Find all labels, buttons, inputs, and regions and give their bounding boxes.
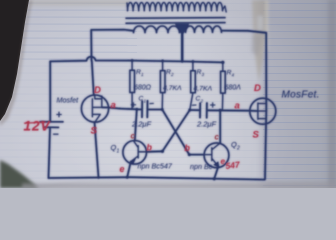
svg-text:c: c: [131, 132, 136, 141]
strike mark on 12V: [24, 121, 46, 123]
junction node n2 C1-R2: [161, 108, 164, 111]
svg-text:MosFet.: MosFet.: [282, 90, 320, 101]
wire: cross-coupling n3 to Q1 base: [162, 110, 189, 151]
transistor Q1 emitter arrow: [130, 159, 135, 164]
transformer core lines: [126, 18, 225, 24]
capacitor C2 plates: [200, 103, 207, 118]
wire: right rail mosfet M2 source to bottom bus: [265, 110, 266, 179]
junction Q1 emitter on ground bus: [126, 176, 129, 179]
mosfet M2 internal symbol: [258, 103, 266, 119]
junction R3 top on +12V bus: [191, 60, 194, 63]
svg-text:b: b: [147, 143, 153, 153]
svg-text:D: D: [94, 85, 101, 96]
svg-text:3: 3: [202, 72, 205, 77]
transistor Q1 symbol: [131, 142, 147, 162]
svg-text:2.2μF: 2.2μF: [196, 120, 217, 129]
wire: Q1 emitter to bottom bus: [127, 162, 131, 178]
transformer primary right winding: [186, 26, 222, 32]
wire: Q2 emitter to bottom bus: [214, 166, 218, 178]
wire: node a2 to mosfet M2 gate: [250, 110, 258, 112]
junction centre tap on +12V bus: [181, 60, 184, 63]
wire: Q2 base lead to junction: [189, 154, 204, 156]
junction Q2 emitter on ground bus: [213, 177, 216, 180]
junction R2 top on +12V bus: [161, 60, 164, 63]
wire: node a to C1 left plate: [120, 108, 142, 111]
resistor R1 body: [130, 70, 135, 92]
svg-text:npn Bc547: npn Bc547: [138, 162, 173, 171]
svg-text:680Ω: 680Ω: [134, 85, 152, 92]
wire: +12V top bus with hop over drain wire: [50, 57, 222, 63]
primary centre tap: [176, 24, 189, 34]
battery - terminal mark: [54, 133, 59, 135]
resistor R2 leads: [161, 61, 163, 110]
svg-text:1: 1: [144, 99, 147, 104]
resistor R2 body: [160, 71, 165, 93]
transistor Q2 emitter arrow: [214, 162, 219, 167]
battery B1 12V plates: [40, 122, 63, 128]
resistor R4 body: [221, 71, 226, 93]
wire: Q1 base lead to junction: [146, 150, 162, 153]
junction Q1 base: [161, 150, 164, 153]
wire: cross-coupling n2 to Q2 base: [162, 110, 189, 155]
wire: mosfet M1 source to bottom bus: [95, 122, 99, 177]
svg-text:npn Bc: npn Bc: [190, 162, 213, 171]
resistor R3 leads: [190, 62, 193, 110]
svg-text:Mosfet: Mosfet: [57, 96, 80, 105]
wire: left rail from bus to battery: [49, 61, 51, 121]
wire: primary right end over to right rail: [222, 31, 266, 33]
wire: left rail battery to bottom bus: [49, 127, 51, 178]
wire: drain drop below bus to mosfet: [92, 61, 94, 95]
wire: Q1 collector to node a: [135, 109, 137, 140]
junction Q2 collector at node a2: [219, 109, 222, 112]
svg-text:c: c: [215, 133, 220, 142]
svg-text:4: 4: [232, 73, 235, 78]
mosfet M1 internal symbol: [92, 96, 102, 122]
svg-text:547: 547: [225, 159, 242, 171]
svg-text:e: e: [120, 164, 125, 174]
svg-text:4,7KΛ: 4,7KΛ: [194, 86, 213, 93]
transformer primary left winding: [134, 26, 180, 33]
junction R4 top on +12V bus: [221, 61, 224, 64]
junction Q2 base: [188, 153, 191, 156]
svg-text:a: a: [111, 100, 116, 111]
svg-text:4,7KΛ: 4,7KΛ: [163, 85, 182, 92]
svg-text:2: 2: [200, 99, 204, 104]
junction node n3 C2-R3: [188, 109, 191, 112]
junction Q1 collector at node a: [135, 108, 138, 111]
transistor Q2 body circle: [204, 143, 229, 168]
svg-text:a: a: [235, 101, 240, 112]
C1 polarity marks: [131, 103, 153, 107]
wire: Q2 collector to node a2: [219, 110, 221, 142]
transformer secondary end hooks: [127, 3, 226, 12]
transistor Q2 symbol: [204, 144, 219, 167]
wire: right rail down through mosfet M2: [265, 33, 267, 110]
wire: mosfet M1 gate lead to node a: [102, 107, 120, 108]
svg-text:S: S: [253, 130, 260, 141]
svg-text:680Λ: 680Λ: [225, 85, 242, 92]
transformer T1 secondary winding: [128, 3, 223, 11]
C2 polarity marks: [192, 103, 215, 107]
wire: C1 right plate to node n2: [148, 109, 163, 111]
junction R1 top on +12V bus: [131, 59, 134, 62]
mosfet M2 body circle: [250, 98, 276, 124]
svg-text:2: 2: [236, 146, 240, 152]
resistor R4 leads: [221, 62, 223, 110]
resistor R1 leads: [131, 61, 133, 110]
wire: primary left end to left mosfet drain: [91, 30, 134, 61]
capacitor C1 plates: [142, 101, 148, 118]
svg-text:12V: 12V: [24, 119, 51, 134]
mosfet M1 body circle: [81, 95, 108, 122]
svg-text:2.2μF: 2.2μF: [131, 120, 152, 129]
svg-text:1: 1: [141, 72, 144, 77]
battery + terminal mark: [57, 112, 62, 117]
wire: centre tap down to +12V bus: [181, 33, 183, 61]
wire: node n3 to C2 left plate: [190, 109, 200, 111]
wire: C2 right plate to node a2: [207, 109, 250, 111]
svg-text:2: 2: [170, 72, 174, 77]
wire: bottom ground bus: [49, 177, 265, 179]
transistor Q1 body circle: [123, 141, 147, 165]
junction M1 source on ground bus: [97, 176, 100, 179]
svg-text:D: D: [254, 83, 261, 94]
resistor R3 body: [191, 71, 196, 93]
svg-text:1: 1: [117, 149, 120, 155]
svg-text:b: b: [185, 143, 191, 153]
svg-text:S: S: [91, 126, 98, 137]
